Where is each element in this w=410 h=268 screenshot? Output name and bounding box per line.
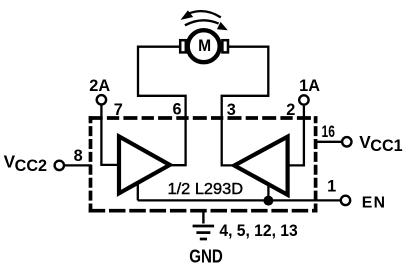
wire: motor left lead (pin 6 net) xyxy=(138,47,186,166)
wire: GND tap from box bottom xyxy=(202,209,204,224)
IC boundary dashed box: bottom edge xyxy=(89,209,318,213)
wire: VCC2 to pin 8 xyxy=(65,164,92,166)
svg-text:8: 8 xyxy=(74,147,83,165)
svg-text:1/2 L293D: 1/2 L293D xyxy=(168,181,244,198)
terminal 2A xyxy=(97,95,106,104)
motor terminal right xyxy=(222,40,228,52)
svg-text:1: 1 xyxy=(327,178,336,196)
IC boundary dashed box: top edge xyxy=(89,116,318,120)
wire: 1A input to pin 2 xyxy=(288,106,304,166)
wire: left driver enable tap xyxy=(137,183,139,201)
svg-text:EN: EN xyxy=(362,195,385,212)
driver buffer A2 (right, pointing left) xyxy=(234,137,287,195)
terminal VCC2 xyxy=(55,161,64,170)
rotation arrow ccw (upper arc, head left) xyxy=(190,11,221,17)
svg-text:3: 3 xyxy=(227,101,236,119)
rotation arrow cw (lower arc, head right) xyxy=(185,20,219,25)
IC boundary dashed box: left edge xyxy=(89,116,93,212)
terminal VCC1 xyxy=(342,137,351,146)
svg-text:M: M xyxy=(198,36,211,55)
wire: right driver enable tap xyxy=(267,184,269,201)
ground symbol xyxy=(193,225,215,228)
svg-text:2: 2 xyxy=(286,101,295,119)
wire: EN line (pin 1) xyxy=(138,199,340,201)
svg-text:1A: 1A xyxy=(299,77,320,95)
wire: motor right lead (pin 3 net) xyxy=(222,47,269,166)
motor M1 body xyxy=(188,30,220,62)
wire: 2A input to pin 7 xyxy=(101,105,119,165)
svg-text:6: 6 xyxy=(172,101,181,119)
svg-text:4, 5, 12, 13: 4, 5, 12, 13 xyxy=(219,222,297,240)
IC boundary dashed box: right edge xyxy=(314,116,318,212)
wire: pin 16 to VCC1 xyxy=(315,141,342,143)
svg-text:16: 16 xyxy=(322,123,335,141)
motor terminal left xyxy=(180,40,186,52)
driver buffer A1 (left, pointing right) xyxy=(119,136,170,193)
junction dot on EN line xyxy=(263,196,273,206)
svg-text:GND: GND xyxy=(189,247,223,267)
terminal 1A xyxy=(299,95,308,104)
svg-text:2A: 2A xyxy=(89,77,110,95)
svg-text:7: 7 xyxy=(114,101,123,119)
terminal EN xyxy=(341,196,350,205)
